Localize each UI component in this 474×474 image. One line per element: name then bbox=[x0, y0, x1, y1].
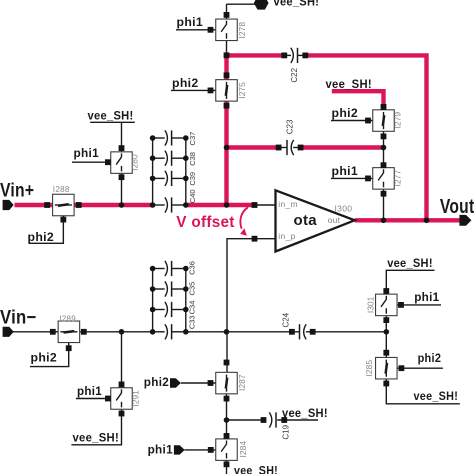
svg-text:in_m: in_m bbox=[278, 199, 298, 209]
svg-text:vee_SH!: vee_SH! bbox=[282, 406, 328, 420]
svg-text:C19: C19 bbox=[281, 424, 290, 439]
svg-text:phi2: phi2 bbox=[28, 230, 55, 244]
svg-text:phi1: phi1 bbox=[332, 164, 359, 178]
svg-text:C36: C36 bbox=[188, 261, 197, 275]
svg-text:vee_SH!: vee_SH! bbox=[414, 389, 459, 403]
svg-text:Vin−: Vin− bbox=[0, 307, 37, 328]
svg-text:V offset: V offset bbox=[176, 214, 234, 231]
svg-text:C37: C37 bbox=[188, 132, 197, 146]
svg-text:vee_SH!: vee_SH! bbox=[387, 256, 433, 270]
svg-text:phi1: phi1 bbox=[74, 146, 100, 160]
svg-text:phi2: phi2 bbox=[418, 351, 442, 365]
svg-text:C33: C33 bbox=[188, 315, 197, 329]
svg-text:I280: I280 bbox=[130, 154, 140, 171]
svg-text:C34: C34 bbox=[188, 301, 197, 315]
svg-text:C39: C39 bbox=[188, 172, 197, 186]
svg-text:ota: ota bbox=[294, 212, 318, 229]
svg-text:C40: C40 bbox=[188, 189, 197, 203]
svg-text:phi1: phi1 bbox=[148, 443, 173, 457]
svg-text:Vin+: Vin+ bbox=[0, 180, 34, 201]
svg-text:vee_SH!: vee_SH! bbox=[326, 77, 372, 91]
svg-text:C35: C35 bbox=[188, 282, 197, 296]
svg-text:out: out bbox=[328, 215, 341, 225]
svg-text:vee_SH!: vee_SH! bbox=[274, 0, 320, 8]
svg-text:I277: I277 bbox=[393, 170, 403, 187]
svg-text:phi1: phi1 bbox=[177, 15, 204, 29]
svg-text:I291: I291 bbox=[130, 390, 140, 407]
svg-text:I285: I285 bbox=[364, 360, 374, 377]
svg-text:I275: I275 bbox=[237, 82, 247, 99]
svg-text:I288: I288 bbox=[53, 185, 70, 194]
svg-text:I278: I278 bbox=[237, 22, 247, 39]
svg-text:vee_SH!: vee_SH! bbox=[88, 108, 134, 122]
svg-text:Vout: Vout bbox=[440, 196, 474, 218]
svg-text:I284: I284 bbox=[238, 441, 248, 458]
svg-text:C22: C22 bbox=[290, 67, 299, 82]
svg-text:phi1: phi1 bbox=[77, 384, 102, 398]
svg-text:phi2: phi2 bbox=[31, 351, 58, 365]
svg-text:I301: I301 bbox=[365, 296, 375, 313]
svg-text:vee_SH!: vee_SH! bbox=[234, 463, 278, 474]
svg-text:in_p: in_p bbox=[278, 231, 295, 241]
svg-text:vee_SH!: vee_SH! bbox=[73, 431, 120, 445]
svg-text:I279: I279 bbox=[393, 112, 403, 129]
svg-text:phi1: phi1 bbox=[414, 290, 439, 304]
svg-text:I300: I300 bbox=[335, 203, 353, 213]
svg-text:C23: C23 bbox=[285, 119, 294, 134]
svg-text:C38: C38 bbox=[188, 152, 197, 166]
svg-text:phi2: phi2 bbox=[172, 76, 199, 90]
svg-text:phi2: phi2 bbox=[332, 106, 359, 120]
svg-text:C24: C24 bbox=[281, 312, 290, 327]
svg-text:I289: I289 bbox=[59, 315, 76, 324]
svg-text:I287: I287 bbox=[237, 374, 247, 391]
svg-text:phi2: phi2 bbox=[144, 375, 169, 389]
